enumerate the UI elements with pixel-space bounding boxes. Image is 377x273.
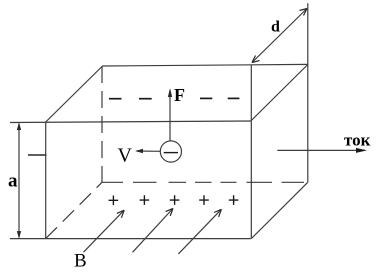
- svg-text:F: F: [174, 85, 185, 105]
- top face minus charge 3: [200, 97, 212, 99]
- plus sign 2: [140, 195, 150, 205]
- current arrowhead: [356, 148, 367, 153]
- plus sign 3: [170, 195, 180, 205]
- dimension d arrowhead upper-right: [300, 9, 308, 16]
- top face right slant edge: [251, 65, 308, 122]
- current arrow: [277, 149, 365, 151]
- top face back edge: [103, 64, 308, 66]
- plus sign 4: [199, 195, 209, 205]
- svg-text:d: d: [271, 19, 280, 36]
- dimension a arrow line: [18, 124, 20, 238]
- velocity V arrowhead: [135, 149, 143, 153]
- plus sign 1: [109, 196, 119, 206]
- B field arrow 3: [178, 210, 220, 254]
- dimension a arrowhead bottom: [17, 231, 21, 239]
- B field arrowhead 2: [166, 208, 173, 216]
- right face bottom slant edge: [251, 182, 307, 238]
- dimension d arrow line: [252, 9, 307, 63]
- B field arrowhead 3: [214, 209, 221, 217]
- top face minus charge 4: [228, 97, 240, 99]
- hidden back-bottom edge (dashed): [102, 181, 304, 183]
- B field arrow 1: [84, 211, 124, 252]
- front face top edge (with left extension line): [10, 121, 251, 123]
- hidden bottom-left slant edge (dashed): [46, 182, 102, 238]
- plus sign 5: [229, 195, 239, 205]
- B field arrow 2: [133, 210, 173, 253]
- front face right edge (extended up to top back edge): [250, 65, 252, 239]
- dimension d arrowhead lower-left: [252, 56, 260, 63]
- electron minus sign: [164, 152, 178, 154]
- force F arrowhead: [168, 88, 172, 97]
- back right vertical edge (extended up as d extension line): [307, 3, 309, 182]
- svg-text:B: B: [74, 251, 87, 272]
- top face left slant edge: [46, 66, 103, 122]
- left face minus tick: [28, 154, 46, 156]
- force F arrow: [169, 90, 171, 141]
- dimension a arrowhead top: [17, 123, 21, 131]
- svg-text:V: V: [118, 144, 133, 166]
- front face bottom edge (with left extension line): [10, 238, 251, 240]
- top face minus charge 1: [109, 98, 122, 100]
- top face minus charge 2: [139, 98, 152, 100]
- B field arrowhead 1: [117, 210, 124, 218]
- svg-text:a: a: [8, 170, 18, 191]
- hidden back-left vertical edge (dashed): [101, 66, 103, 182]
- svg-text:ток: ток: [344, 131, 371, 150]
- electron circle: [160, 141, 181, 162]
- front face left edge: [45, 122, 47, 239]
- velocity V arrow: [137, 150, 161, 152]
